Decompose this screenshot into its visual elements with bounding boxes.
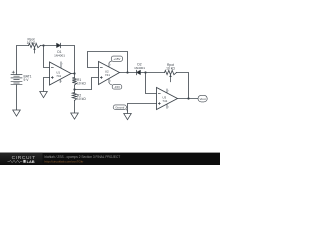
node U1 output [73, 72, 75, 74]
svg-text:741: 741 [162, 99, 167, 103]
wire U2 feedback loop [88, 52, 128, 73]
net label -15V [109, 83, 122, 90]
wire D2 to Rpot2 [141, 72, 165, 74]
svg-text:http://circuitlab.com/cvx7Gkr: http://circuitlab.com/cvx7Gkr [45, 159, 84, 163]
label R1 10 k [77, 78, 86, 86]
svg-text:-15V: -15V [114, 85, 120, 89]
wire D1 to U1 output node [61, 46, 75, 74]
op-amp U2 [99, 62, 120, 85]
potentiometer Rpot [29, 43, 41, 53]
resistor R1 [72, 74, 76, 90]
net label Vout [198, 95, 207, 102]
wire U2 output [120, 72, 137, 74]
label D2 1N4001 [134, 63, 145, 71]
battery BAT1 [11, 71, 22, 85]
footer credits text [45, 155, 121, 164]
svg-text:9 V: 9 V [24, 78, 30, 82]
label D1 1N4001 [54, 50, 65, 58]
potentiometer Rpot2 [165, 70, 177, 82]
node junction top [42, 44, 44, 46]
svg-text:1N4001: 1N4001 [54, 53, 65, 57]
node divider [73, 88, 75, 90]
svg-text:7: 7 [168, 91, 169, 93]
wire divider to U2 noninverting input [75, 78, 99, 90]
node C junction [144, 71, 146, 73]
svg-text:10 kΩ: 10 kΩ [77, 97, 86, 101]
svg-text:1N4001: 1N4001 [134, 66, 145, 70]
label Rpot 10 k [27, 37, 36, 45]
svg-text:LAB: LAB [27, 159, 35, 164]
wire U3 output [178, 98, 199, 100]
node U3 output junction [187, 97, 189, 99]
wire U1 output [71, 73, 75, 75]
footer logo CircuitLab [0, 153, 43, 165]
ground R2 [71, 113, 79, 119]
ground U1 input [40, 92, 48, 98]
node U2 feedback junction [126, 71, 128, 73]
wire battery top to Rpot [17, 46, 29, 75]
svg-text:10 kΩ: 10 kΩ [166, 66, 175, 70]
wire U3 noninverting input to ground [128, 104, 157, 114]
svg-text:4: 4 [110, 81, 111, 83]
wire U1 noninverting input to ground [44, 78, 50, 92]
svg-text:7: 7 [110, 65, 111, 67]
ground battery [13, 110, 21, 116]
wire Rpot to D1 [41, 45, 57, 47]
wire node C to U3 inverting input [146, 73, 157, 94]
svg-text:+15V: +15V [113, 57, 120, 61]
svg-text:10 kΩ: 10 kΩ [77, 82, 86, 86]
label Rpot2 10 k [166, 63, 175, 71]
svg-text:Vout: Vout [200, 97, 206, 101]
svg-text:741: 741 [56, 74, 61, 78]
svg-text:7: 7 [62, 63, 63, 65]
svg-text:Ground: Ground [115, 105, 124, 109]
net label +15V [109, 56, 123, 63]
label R2 10 k [77, 93, 86, 101]
footer bar [0, 153, 220, 165]
wire node to U1 inverting input [44, 46, 50, 68]
wire battery to ground [16, 85, 18, 110]
svg-text:blahlah / ZSS - opamps 2 Secti: blahlah / ZSS - opamps 2 Section 3 FINAL… [45, 155, 121, 159]
diode D2 [137, 70, 141, 74]
svg-text:741: 741 [105, 73, 110, 77]
wire Rpot2 to U3 output node [177, 73, 189, 99]
svg-text:10 kΩ: 10 kΩ [27, 41, 36, 45]
net label Ground [113, 105, 127, 111]
resistor R2 [72, 90, 76, 114]
label BAT1 9V [24, 75, 32, 83]
svg-text:4: 4 [168, 107, 169, 109]
op-amp U3 [157, 88, 178, 110]
ground U3 input [124, 114, 132, 120]
svg-text:4: 4 [61, 81, 62, 83]
op-amp U1 [50, 62, 72, 85]
diode D1 [57, 43, 61, 47]
